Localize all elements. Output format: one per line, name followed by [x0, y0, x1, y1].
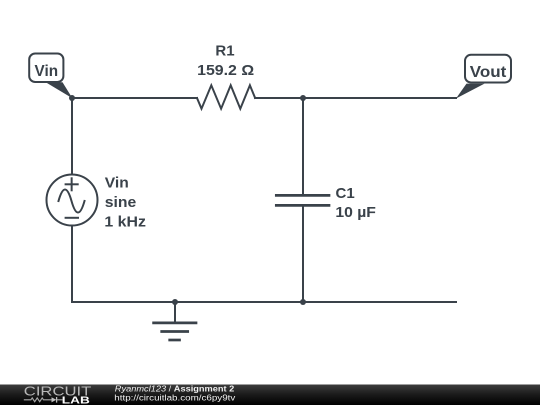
logo diode [52, 397, 57, 402]
svg-text:http://circuitlab.com/c6py9tv: http://circuitlab.com/c6py9tv [114, 393, 235, 402]
node dot at ground tap [172, 299, 178, 305]
svg-text:Vin: Vin [105, 175, 129, 192]
node dot at R1/C1 junction [300, 95, 306, 101]
wire bottom rail [72, 301, 456, 303]
svg-text:10 µF: 10 µF [335, 204, 376, 221]
svg-text:Vout: Vout [470, 64, 507, 81]
footer bar [0, 385, 540, 405]
voltage source Vin circle [47, 175, 98, 226]
wire middle vertical upper [302, 98, 304, 196]
wire left vertical upper [71, 98, 73, 175]
Vout flag tail [456, 84, 485, 99]
capacitor C1 plates [276, 194, 329, 197]
Vin flag tail [46, 82, 73, 98]
svg-text:159.2 Ω: 159.2 Ω [197, 62, 254, 79]
wire top right horizontal [255, 97, 456, 99]
resistor R1 [197, 85, 255, 108]
wire middle vertical lower [302, 206, 304, 303]
ground symbol bars [154, 322, 196, 325]
node dot under Vin flag [69, 95, 75, 101]
svg-text:1 kHz: 1 kHz [104, 213, 146, 230]
Vout flag box [465, 55, 511, 83]
voltage source minus sign [66, 217, 78, 219]
svg-text:C1: C1 [336, 185, 355, 202]
wire left vertical lower [71, 226, 73, 303]
logo resistor zigzag [24, 398, 52, 402]
node dot at C1 bottom [300, 299, 306, 305]
wire top left horizontal [72, 97, 197, 99]
svg-text:R1: R1 [215, 43, 234, 60]
svg-text:sine: sine [105, 194, 137, 211]
voltage source plus sign [66, 183, 78, 185]
ground symbol stub [174, 302, 176, 323]
svg-text:Vin: Vin [35, 63, 59, 80]
svg-text:Ryanmcl123 / Assignment 2: Ryanmcl123 / Assignment 2 [115, 384, 235, 393]
svg-text:LAB: LAB [62, 394, 91, 405]
Vin flag box [29, 54, 63, 83]
voltage source sine wave [59, 190, 85, 213]
